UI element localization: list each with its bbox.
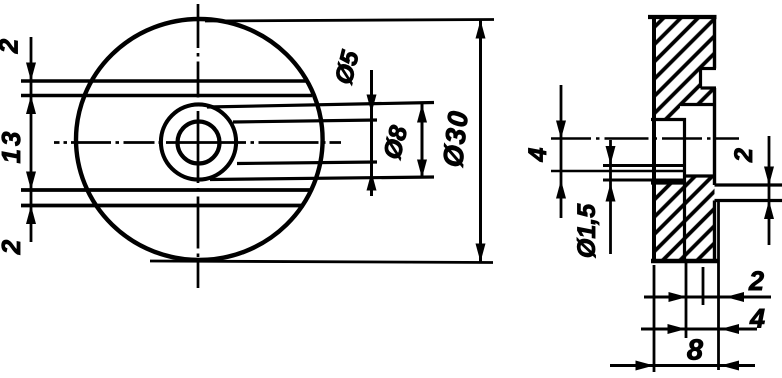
svg-text:4: 4 (524, 147, 552, 162)
svg-text:Ø1,5: Ø1,5 (573, 203, 601, 258)
svg-text:2: 2 (0, 239, 26, 255)
svg-text:Ø5: Ø5 (330, 47, 366, 87)
svg-text:13: 13 (0, 129, 26, 164)
svg-text:2: 2 (730, 148, 758, 163)
svg-text:4: 4 (749, 304, 765, 334)
svg-text:2: 2 (748, 266, 764, 296)
svg-text:2: 2 (0, 38, 24, 54)
svg-text:Ø8: Ø8 (378, 123, 413, 162)
svg-text:8: 8 (687, 335, 704, 367)
svg-text:Ø30: Ø30 (437, 108, 474, 168)
